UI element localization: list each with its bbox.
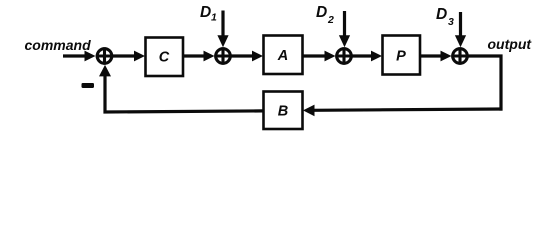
svg-text:2: 2 <box>327 14 334 26</box>
block C <box>146 38 184 77</box>
block P <box>383 36 421 75</box>
wire A to summing junction S3 <box>303 51 336 62</box>
svg-text:1: 1 <box>211 12 217 24</box>
summing junction S3 <box>335 47 352 64</box>
svg-text:output: output <box>488 36 533 52</box>
summing junction S1 <box>96 47 113 64</box>
label D2 <box>316 4 334 26</box>
wire S2 to block A <box>232 51 264 62</box>
wire D1 arrow into S2 <box>217 11 228 48</box>
svg-text:P: P <box>396 49 406 65</box>
wire input arrow into summing junction S1 <box>63 51 96 62</box>
wire C to summing junction S2 <box>183 51 215 62</box>
wire D2 arrow into S3 <box>339 11 350 47</box>
summing junction S2 <box>214 47 231 64</box>
block A <box>264 36 303 75</box>
svg-text:command: command <box>25 37 92 53</box>
block B <box>264 92 303 130</box>
wire D3 arrow into S4 <box>455 12 466 47</box>
wire feedback bottom line into block B <box>303 105 503 117</box>
svg-text:D: D <box>200 4 211 21</box>
label D3 <box>436 6 454 28</box>
wire S1 to block C <box>113 51 145 62</box>
svg-text:C: C <box>159 50 170 66</box>
wire P to summing junction S4 <box>420 51 452 62</box>
svg-text:B: B <box>278 104 288 120</box>
svg-text:D: D <box>316 4 327 21</box>
label D1 <box>200 4 217 24</box>
svg-text:3: 3 <box>448 16 454 28</box>
wire S4 to output corner and down <box>469 56 502 111</box>
wire B to left corner and up into S1 <box>99 65 263 112</box>
summing junction S4 <box>451 47 468 64</box>
wire S3 to block P <box>353 51 383 62</box>
svg-text:D: D <box>436 6 447 23</box>
minus sign at S1 <box>82 83 95 88</box>
svg-text:A: A <box>277 48 288 64</box>
